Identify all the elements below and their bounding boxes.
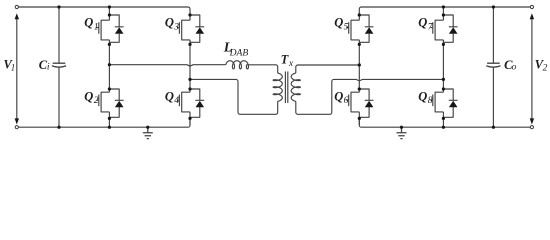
svg-text:Q: Q	[84, 90, 93, 104]
svg-text:o: o	[512, 63, 517, 73]
svg-text:Q: Q	[165, 16, 174, 30]
svg-text:Q: Q	[418, 90, 427, 104]
svg-text:Q: Q	[84, 16, 93, 30]
svg-text:8: 8	[428, 96, 433, 106]
svg-text:3: 3	[173, 23, 179, 33]
svg-text:6: 6	[344, 96, 349, 106]
svg-text:2: 2	[543, 63, 548, 73]
svg-text:2: 2	[94, 96, 99, 106]
svg-text:1: 1	[11, 62, 16, 72]
svg-text:5: 5	[344, 23, 349, 33]
svg-text:Q: Q	[334, 90, 343, 104]
svg-text:4: 4	[174, 96, 179, 106]
svg-text:i: i	[47, 63, 50, 73]
svg-text:Q: Q	[165, 90, 174, 104]
svg-text:DAB: DAB	[229, 47, 249, 58]
svg-text:Q: Q	[334, 16, 343, 30]
svg-text:1: 1	[94, 23, 99, 33]
svg-text:Q: Q	[418, 16, 427, 30]
svg-text:x: x	[288, 59, 294, 69]
